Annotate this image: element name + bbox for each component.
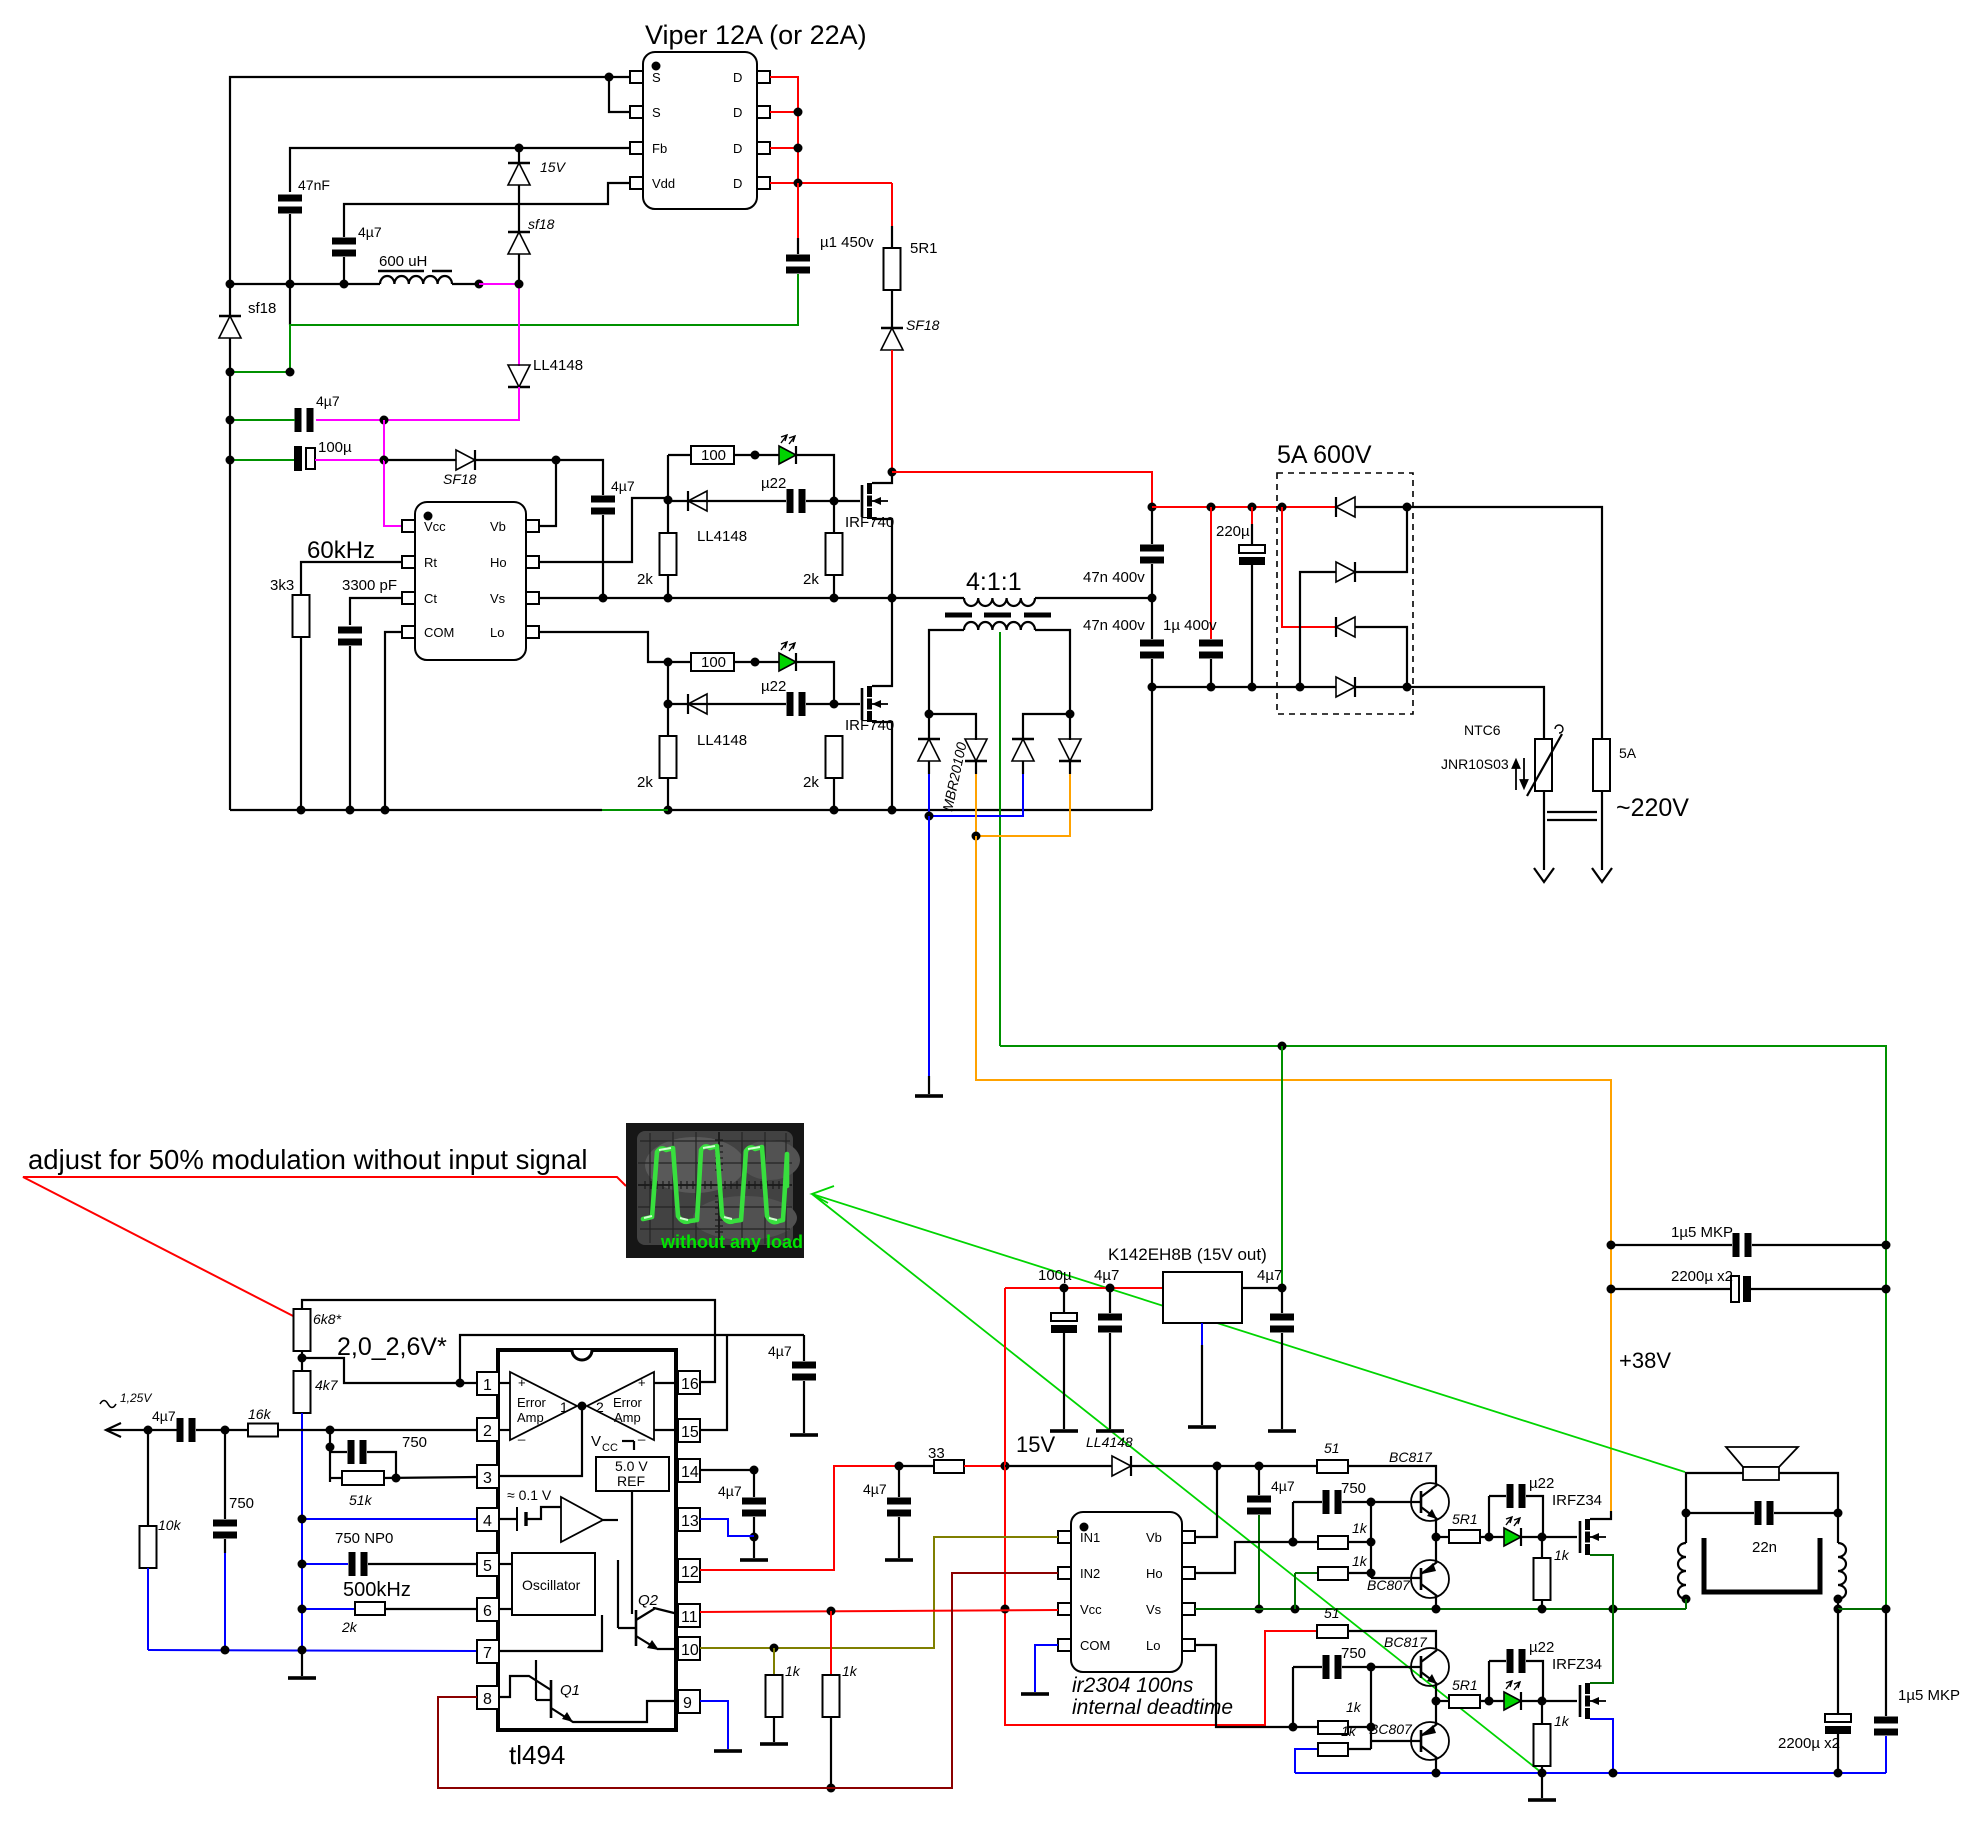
svg-text:3: 3 bbox=[483, 1470, 492, 1487]
svg-text:2k: 2k bbox=[803, 571, 819, 588]
wire pin13 blue bbox=[700, 1519, 754, 1536]
resistor 33 bbox=[899, 1465, 934, 1467]
capacitor 4u7 (ref rail) bbox=[803, 1335, 805, 1361]
svg-text:750: 750 bbox=[229, 1495, 254, 1512]
wire Vb pin riser bbox=[539, 460, 556, 526]
wire Vdd bbox=[344, 183, 630, 237]
svg-text:1: 1 bbox=[560, 1399, 568, 1415]
wire 51 to BC817 collector (lo) bbox=[1348, 1631, 1436, 1649]
wire pin7 internal bbox=[499, 1615, 602, 1651]
wire sec right to D3 bbox=[1023, 714, 1070, 740]
svg-text:6k8*: 6k8* bbox=[313, 1311, 342, 1327]
pin COM bbox=[402, 626, 415, 638]
svg-text:5R1: 5R1 bbox=[910, 240, 938, 257]
transistor IRFZ34 (lo) bbox=[1580, 1683, 1606, 1719]
capacitor u1 450v bbox=[797, 183, 799, 238]
resistor 4k7 bbox=[294, 1371, 311, 1413]
svg-text:2200µ x2: 2200µ x2 bbox=[1778, 1735, 1840, 1752]
svg-text:4µ7: 4µ7 bbox=[718, 1483, 742, 1499]
wire Lo bbox=[539, 632, 668, 662]
svg-text:1µ5 MKP: 1µ5 MKP bbox=[1671, 1224, 1733, 1241]
wire Vs rail dark green bbox=[1195, 1608, 1686, 1610]
diode SF18 (HV) bbox=[881, 328, 903, 350]
wire pin14 bbox=[700, 1469, 754, 1471]
svg-text:Error: Error bbox=[517, 1395, 547, 1410]
capacitor 750 (lo) bbox=[1292, 1667, 1294, 1727]
wire base to BC807 (lo) bbox=[1371, 1740, 1421, 1742]
svg-text:Q2: Q2 bbox=[638, 1592, 659, 1609]
svg-text:5A: 5A bbox=[1619, 745, 1637, 761]
node gate-lo bbox=[664, 658, 673, 667]
svg-text:100: 100 bbox=[701, 447, 726, 464]
wire SF18 to Vb riser bbox=[475, 460, 603, 495]
svg-text:15: 15 bbox=[681, 1424, 699, 1441]
pin 11 bbox=[678, 1604, 700, 1627]
svg-text:1k: 1k bbox=[1554, 1547, 1570, 1563]
wire red SF18 to drain node bbox=[891, 350, 893, 472]
svg-text:NTC6: NTC6 bbox=[1464, 722, 1501, 738]
transistor BC807 (hi) bbox=[1411, 1560, 1449, 1598]
label input bbox=[100, 1401, 116, 1408]
pin D4 bbox=[757, 177, 770, 189]
wire 47nF bottom bbox=[289, 214, 291, 325]
transformer T2 right winding bbox=[1837, 1513, 1839, 1543]
pin D1 bbox=[757, 71, 770, 83]
svg-text:µ22: µ22 bbox=[1529, 1639, 1554, 1656]
svg-text:16: 16 bbox=[681, 1376, 699, 1393]
svg-text:Oscillator: Oscillator bbox=[522, 1577, 581, 1593]
capacitor 750 (input shunt) bbox=[224, 1430, 226, 1519]
svg-text:1k: 1k bbox=[1352, 1553, 1368, 1569]
rail 6k8 to pin16 bbox=[302, 1300, 715, 1382]
svg-text:3k3: 3k3 bbox=[270, 577, 294, 594]
svg-text:47n 400v: 47n 400v bbox=[1083, 569, 1145, 586]
pin 2 bbox=[477, 1418, 499, 1441]
svg-text:D: D bbox=[733, 70, 742, 85]
diode MBR20100 D4 bbox=[1059, 739, 1081, 761]
ground (COM) bbox=[1021, 1692, 1049, 1696]
svg-text:K142EH8B (15V out): K142EH8B (15V out) bbox=[1108, 1245, 1267, 1264]
wire to Vb bbox=[1195, 1466, 1217, 1537]
IC U2 IR2153 body bbox=[415, 502, 526, 660]
svg-text:Vb: Vb bbox=[490, 519, 506, 534]
wire BC807 collector to Vs bbox=[1435, 1596, 1437, 1609]
transistor Q IRF740 upper bbox=[862, 483, 888, 519]
ground (ref rail cap) bbox=[790, 1433, 818, 1437]
svg-text:4µ7: 4µ7 bbox=[1271, 1478, 1295, 1494]
svg-text:4:1:1: 4:1:1 bbox=[966, 568, 1022, 596]
transistor Q2 internal bbox=[635, 1610, 638, 1646]
LED (hi gate) bbox=[1504, 1517, 1521, 1546]
svg-text:IRFZ34: IRFZ34 bbox=[1552, 1492, 1602, 1509]
capacitor 47n 400v upper bbox=[1151, 511, 1153, 544]
wire base node (lo) bbox=[1371, 1666, 1421, 1668]
svg-text:1k: 1k bbox=[1352, 1520, 1368, 1536]
wire magenta to Vcc bbox=[384, 460, 402, 526]
wire LED to gate node lo bbox=[796, 662, 834, 704]
svg-text:Vs: Vs bbox=[1146, 1602, 1162, 1617]
svg-text:5A 600V: 5A 600V bbox=[1277, 441, 1372, 469]
ground (reg) bbox=[1188, 1425, 1216, 1429]
pin S2 bbox=[630, 106, 643, 118]
resistor 1k (lo a) bbox=[1293, 1726, 1318, 1728]
pin Vdd bbox=[630, 177, 643, 189]
wire Fb bbox=[290, 148, 630, 192]
wire drain hi irfz34 to orange bbox=[1590, 1511, 1611, 1519]
svg-text:IRF740: IRF740 bbox=[845, 717, 894, 734]
LED hi bbox=[779, 435, 796, 464]
svg-text:IRFZ34: IRFZ34 bbox=[1552, 1656, 1602, 1673]
svg-text:1k: 1k bbox=[1554, 1713, 1570, 1729]
svg-text:2k: 2k bbox=[637, 774, 653, 791]
svg-text:Vcc: Vcc bbox=[1080, 1602, 1102, 1617]
wire olive pin10 to IN1 bbox=[700, 1537, 1058, 1648]
svg-text:S: S bbox=[652, 70, 661, 85]
node EA out bbox=[578, 1402, 587, 1411]
wire divider to pin1 bbox=[302, 1358, 477, 1383]
capacitor u22 (hi) bbox=[787, 489, 806, 513]
wire green 4u7 left bbox=[230, 419, 295, 421]
wire Lo 2304 bbox=[1195, 1645, 1293, 1727]
svg-text:1k: 1k bbox=[1346, 1699, 1362, 1715]
pin D2 bbox=[757, 106, 770, 118]
svg-text:BC817: BC817 bbox=[1384, 1634, 1428, 1650]
wire blue feedback bus bbox=[301, 1413, 303, 1650]
LED (lo gate) bbox=[1504, 1681, 1521, 1710]
resistor 1k (lo b) bbox=[1295, 1749, 1318, 1773]
pin 16 bbox=[678, 1371, 700, 1394]
svg-text:D: D bbox=[733, 105, 742, 120]
diode MBR20100 D3 bbox=[1012, 739, 1034, 761]
svg-text:LL4148: LL4148 bbox=[533, 357, 583, 374]
svg-text:51: 51 bbox=[1324, 1605, 1340, 1621]
bridge diode B1 bbox=[1336, 497, 1355, 517]
ground (snubber) bbox=[915, 1094, 943, 1098]
wire COM bbox=[385, 632, 402, 810]
resistor 2k (hi right) bbox=[833, 501, 835, 533]
bridge diode B3 bbox=[1336, 617, 1355, 637]
svg-text:Ct: Ct bbox=[424, 591, 437, 606]
pin 15 bbox=[678, 1419, 700, 1442]
IC U4 K142EH8B bbox=[1163, 1272, 1242, 1323]
pin Vcc 2304 bbox=[1058, 1603, 1071, 1615]
svg-text:Lo: Lo bbox=[1146, 1638, 1160, 1653]
inductor 600uH bbox=[380, 276, 452, 284]
pin 10 bbox=[678, 1637, 700, 1660]
comparator triangle bbox=[561, 1497, 603, 1542]
node divider bbox=[301, 1351, 303, 1377]
svg-text:2,0_2,6V*: 2,0_2,6V* bbox=[337, 1333, 447, 1361]
svg-text:≈ 0.1 V: ≈ 0.1 V bbox=[507, 1487, 552, 1503]
pin 5 bbox=[477, 1553, 499, 1576]
svg-text:adjust for 50% modulation with: adjust for 50% modulation without input … bbox=[28, 1144, 588, 1175]
svg-text:2: 2 bbox=[596, 1399, 604, 1415]
capacitor 47n 400v lower bbox=[1151, 598, 1153, 639]
wire red 15V vertical bbox=[1005, 1288, 1317, 1725]
resistor 5R1 (lo) bbox=[1436, 1700, 1449, 1702]
wire 4u7 to rail bbox=[343, 257, 345, 284]
wire left rail lower bbox=[229, 338, 231, 810]
wire red D pins bus bbox=[770, 77, 798, 183]
wire red drain to bridge bbox=[892, 472, 1152, 507]
svg-text:SF18: SF18 bbox=[906, 317, 940, 333]
svg-text:4µ7: 4µ7 bbox=[358, 224, 382, 240]
node Fb-zener bbox=[515, 144, 524, 153]
svg-text:14: 14 bbox=[681, 1464, 699, 1481]
svg-text:Vcc: Vcc bbox=[424, 519, 446, 534]
svg-text:BC807: BC807 bbox=[1367, 1577, 1411, 1593]
diode LL4148 (15V feed) bbox=[1005, 1465, 1112, 1467]
resistor 5R1 bbox=[884, 248, 901, 290]
transformer T2 left winding bbox=[1685, 1513, 1687, 1543]
wire green u1 down-left bbox=[230, 274, 798, 372]
resistor 16k bbox=[248, 1424, 278, 1437]
wire bootstrap cap to Vs bbox=[602, 515, 604, 598]
mains separator bbox=[1547, 811, 1597, 813]
svg-text:9: 9 bbox=[683, 1695, 692, 1712]
wire top S bbox=[230, 77, 630, 316]
wire input line bbox=[106, 1429, 178, 1431]
svg-text:750 NP0: 750 NP0 bbox=[335, 1530, 393, 1547]
resistor 2k (dtc) bbox=[302, 1608, 355, 1610]
capacitor 4u7 (bootstrap 2153) bbox=[591, 496, 615, 515]
wire COM blue to gnd bbox=[1035, 1645, 1058, 1692]
svg-text:V: V bbox=[591, 1433, 601, 1450]
svg-text:Error: Error bbox=[613, 1395, 643, 1410]
svg-text:4µ7: 4µ7 bbox=[768, 1343, 792, 1359]
capacitor 4u7 (reg out) bbox=[1281, 1288, 1283, 1313]
resistor 6k8 bbox=[294, 1309, 311, 1351]
wire emitters join (lo) bbox=[1435, 1684, 1437, 1724]
resistor 2k (lo right) bbox=[826, 736, 843, 778]
svg-text:15V: 15V bbox=[1016, 1432, 1055, 1457]
svg-text:47n 400v: 47n 400v bbox=[1083, 617, 1145, 634]
resistor 1k (pin10 pulldown) bbox=[773, 1648, 775, 1678]
svg-text:10k: 10k bbox=[158, 1517, 182, 1533]
svg-text:2k: 2k bbox=[803, 774, 819, 791]
pin 1 bbox=[477, 1372, 499, 1395]
wire sf18 to rail bbox=[518, 254, 520, 284]
capacitor 4u7 (Vdd) bbox=[332, 238, 356, 257]
wire mid rail to bridge bbox=[1152, 686, 1336, 688]
svg-text:BC807: BC807 bbox=[1369, 1721, 1413, 1737]
resistor 51k bbox=[330, 1477, 342, 1479]
wire 3300pF to rail bbox=[349, 646, 351, 810]
svg-text:+: + bbox=[518, 1375, 526, 1390]
wire bottom rail bbox=[230, 809, 602, 811]
resistor 2k (hi left) bbox=[660, 533, 677, 575]
svg-text:JNR10S03: JNR10S03 bbox=[1441, 756, 1509, 772]
wire reg gnd bbox=[1201, 1323, 1203, 1345]
capacitor 100u electrolytic bbox=[294, 446, 302, 471]
svg-text:5R1: 5R1 bbox=[1452, 1677, 1478, 1693]
pin Rt bbox=[402, 556, 415, 568]
svg-text:µ1 450v: µ1 450v bbox=[820, 234, 874, 251]
resistor 10k bbox=[147, 1430, 149, 1532]
transistor BC817 (hi) bbox=[1411, 1483, 1449, 1521]
wire base to BC807 bbox=[1371, 1577, 1421, 1579]
svg-text:1µ 400v: 1µ 400v bbox=[1163, 617, 1217, 634]
error amp 1 bbox=[510, 1372, 577, 1440]
ground (analog) bbox=[301, 1650, 303, 1676]
svg-text:1,25V: 1,25V bbox=[120, 1391, 152, 1405]
wire T2 right to green bbox=[1837, 1599, 1839, 1609]
svg-text:220µ: 220µ bbox=[1216, 523, 1250, 540]
capacitor 3300pF bbox=[338, 627, 362, 646]
svg-text:Lo: Lo bbox=[490, 625, 504, 640]
IC U5 ir2304 body bbox=[1071, 1512, 1182, 1672]
wire Vs rail bbox=[539, 597, 892, 599]
pin Vcc bbox=[402, 520, 415, 532]
svg-text:IN1: IN1 bbox=[1080, 1530, 1100, 1545]
speaker LS1 bbox=[1726, 1447, 1798, 1467]
wire red to 5R1 bbox=[891, 183, 893, 226]
svg-text:1k: 1k bbox=[842, 1663, 858, 1679]
wire red branch to D3 bbox=[1282, 507, 1336, 627]
wire red regulator line bbox=[1005, 1287, 1163, 1289]
wire 460 line to SF18 bbox=[384, 459, 456, 461]
pin 8 bbox=[477, 1686, 499, 1709]
diode MBR20100 D1 bbox=[918, 739, 940, 761]
wire secondary left bbox=[929, 630, 964, 714]
pin Fb bbox=[630, 142, 643, 154]
battery comparator bbox=[499, 1518, 517, 1520]
svg-text:sf18: sf18 bbox=[248, 300, 276, 317]
transistor IRFZ34 (hi) bbox=[1580, 1519, 1606, 1555]
svg-text:10: 10 bbox=[681, 1642, 699, 1659]
svg-text:Ho: Ho bbox=[490, 555, 507, 570]
node S junction bbox=[605, 73, 614, 82]
svg-text:4µ7: 4µ7 bbox=[316, 393, 340, 409]
svg-text:4µ7: 4µ7 bbox=[863, 1481, 887, 1497]
oscillator box bbox=[512, 1553, 595, 1615]
svg-text:500kHz: 500kHz bbox=[343, 1579, 411, 1601]
wire S2 bbox=[609, 77, 630, 112]
svg-text:750: 750 bbox=[1341, 1480, 1366, 1497]
ground (4u7 reg out) bbox=[1268, 1429, 1296, 1433]
capacitor 4u7 (reg in) bbox=[1109, 1288, 1111, 1313]
ground (vcc cap) bbox=[885, 1558, 913, 1562]
capacitor 47nF bbox=[278, 195, 302, 214]
LED lo bbox=[779, 642, 796, 671]
wire green pointer lines bbox=[812, 1186, 1685, 1472]
wire green center tap bbox=[999, 632, 1001, 1046]
IC U1 Viper12A body bbox=[643, 52, 757, 209]
svg-text:BC817: BC817 bbox=[1389, 1449, 1433, 1465]
svg-text:+38V: +38V bbox=[1619, 1348, 1671, 1373]
svg-text:4k7: 4k7 bbox=[315, 1377, 339, 1393]
svg-text:2k: 2k bbox=[341, 1619, 358, 1635]
transistor Q1 internal bbox=[550, 1680, 553, 1718]
pin 4 bbox=[477, 1508, 499, 1531]
wire to pin2 bbox=[278, 1429, 477, 1431]
wire magenta LL4148 to 4u7 row bbox=[316, 387, 519, 420]
transformer T1 core bbox=[945, 613, 972, 618]
resistor 1k (hi b) bbox=[1294, 1573, 1296, 1609]
resistor 5R1 (hi) bbox=[1436, 1536, 1449, 1538]
pin Lo bbox=[526, 626, 539, 638]
wire pin12 red bbox=[700, 1466, 899, 1570]
rail pin1 to pin15 bbox=[460, 1335, 804, 1383]
svg-text:_: _ bbox=[517, 1426, 526, 1441]
transistor Q IRF740 lower bbox=[862, 686, 888, 722]
svg-text:without any load: without any load bbox=[660, 1232, 803, 1252]
svg-text:4µ7: 4µ7 bbox=[1094, 1267, 1119, 1284]
wire blue agnd bus bbox=[148, 1650, 477, 1651]
wire red HV+ rail bbox=[1152, 506, 1336, 508]
resistor 51 (hi) bbox=[1317, 1460, 1348, 1473]
svg-text:22n: 22n bbox=[1752, 1539, 1777, 1556]
wire BC807 collector to blue rail bbox=[1435, 1758, 1437, 1773]
svg-text:Amp: Amp bbox=[517, 1410, 544, 1425]
pin 12 bbox=[678, 1559, 700, 1582]
capacitor 1u 400v bbox=[1210, 507, 1212, 639]
ground (100u) bbox=[1050, 1429, 1078, 1433]
capacitor 4u7 (bootstrap 2304) bbox=[1258, 1466, 1260, 1495]
wire Ho bbox=[539, 498, 668, 562]
pin 14 bbox=[678, 1459, 700, 1482]
wire reg out bbox=[1242, 1287, 1282, 1289]
wire 3k3 to rail bbox=[300, 637, 302, 810]
svg-text:Fb: Fb bbox=[652, 141, 667, 156]
wire sec left to D2 bbox=[929, 714, 976, 740]
wire Rt bbox=[301, 562, 402, 595]
svg-text:µ22: µ22 bbox=[1529, 1475, 1554, 1492]
svg-text:ir2304 100ns: ir2304 100ns bbox=[1072, 1674, 1194, 1697]
svg-text:1k: 1k bbox=[785, 1663, 801, 1679]
svg-text:_: _ bbox=[637, 1426, 646, 1441]
diode sf18 (vertical chain) bbox=[518, 185, 520, 233]
ground (power) bbox=[1541, 1773, 1543, 1798]
capacitor 22n bbox=[1686, 1512, 1754, 1514]
ground (pin9) bbox=[714, 1749, 742, 1753]
oscilloscope photo bbox=[626, 1123, 804, 1258]
rail y284 with inductor bbox=[230, 283, 380, 285]
svg-text:750: 750 bbox=[1341, 1645, 1366, 1662]
varistor arrows bbox=[1513, 758, 1528, 790]
wire base node (hi) bbox=[1371, 1501, 1421, 1503]
svg-text:SF18: SF18 bbox=[443, 471, 477, 487]
bridge diode B4 bbox=[1336, 677, 1355, 697]
wire Ho 2304 bbox=[1195, 1542, 1293, 1573]
svg-text:5: 5 bbox=[483, 1558, 492, 1575]
svg-text:COM: COM bbox=[1080, 1638, 1110, 1653]
IC U3 TL494 body bbox=[498, 1350, 676, 1730]
transistor BC817 (lo) bbox=[1411, 1648, 1449, 1686]
svg-text:IN2: IN2 bbox=[1080, 1566, 1100, 1581]
pin Lo 2304 bbox=[1182, 1639, 1195, 1651]
pin Vb bbox=[526, 520, 539, 532]
ground (1k pin10) bbox=[760, 1742, 788, 1746]
capacitor 1u5 MKP (supply) bbox=[1611, 1244, 1732, 1246]
capacitor 750 (hi) bbox=[1292, 1502, 1294, 1542]
resistor 100 (lo) bbox=[668, 661, 691, 663]
svg-text:LL4148: LL4148 bbox=[697, 732, 747, 749]
pin 7 bbox=[477, 1640, 499, 1663]
diode LL4148 (hi gate) bbox=[668, 500, 707, 502]
capacitor 2200u x2 (out) bbox=[1837, 1609, 1839, 1714]
svg-text:~220V: ~220V bbox=[1616, 794, 1689, 822]
wire u22 to gate bbox=[806, 500, 860, 502]
node gate-hi bbox=[664, 496, 673, 505]
wire source lo to rail bbox=[872, 722, 892, 810]
wire emitters join (hi) bbox=[1435, 1519, 1437, 1562]
svg-text:Viper 12A (or 22A): Viper 12A (or 22A) bbox=[645, 20, 867, 50]
svg-text:11: 11 bbox=[681, 1609, 698, 1626]
wire speaker left bbox=[1686, 1473, 1743, 1513]
resistor 51 (lo) bbox=[1317, 1625, 1348, 1638]
svg-text:COM: COM bbox=[424, 625, 454, 640]
